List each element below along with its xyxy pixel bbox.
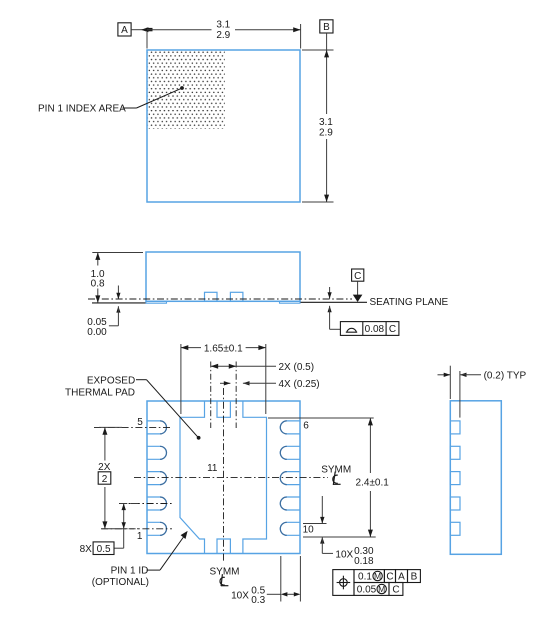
datum B bbox=[320, 20, 333, 50]
svg-text:2.4±0.1: 2.4±0.1 bbox=[356, 478, 390, 489]
svg-text:C: C bbox=[354, 271, 361, 282]
svg-text:C: C bbox=[389, 324, 396, 335]
svg-text:11: 11 bbox=[207, 463, 218, 474]
svg-text:SEATING PLANE: SEATING PLANE bbox=[370, 297, 449, 308]
tab centerline right bbox=[235, 362, 237, 429]
left pins 5-1 (terminals) bbox=[147, 421, 167, 535]
svg-text:EXPOSED: EXPOSED bbox=[87, 376, 135, 387]
dim 1.0/0.8 bbox=[91, 253, 143, 303]
seating plane line left bbox=[92, 302, 146, 304]
svg-text:10X: 10X bbox=[231, 591, 249, 602]
flatness callout leader bbox=[328, 287, 341, 329]
svg-text:SYMM: SYMM bbox=[210, 567, 240, 578]
svg-text:C: C bbox=[392, 585, 399, 596]
side view lead right bbox=[280, 301, 301, 303]
dim 3.1/2.9 vertical bbox=[302, 50, 334, 202]
side view centerline bbox=[88, 298, 352, 300]
side view lead left bbox=[146, 301, 167, 303]
dim 1.65±0.1 pad width bbox=[181, 343, 266, 414]
pin2 centerline bbox=[119, 503, 172, 505]
dim 0.05/0.00 bbox=[87, 286, 120, 338]
svg-text:0.08: 0.08 bbox=[365, 324, 385, 335]
datum C seating plane bbox=[352, 269, 449, 308]
svg-text:(OPTIONAL): (OPTIONAL) bbox=[92, 577, 149, 588]
svg-text:SYMM: SYMM bbox=[321, 464, 351, 475]
pin 1 index area stipple bbox=[148, 51, 225, 129]
svg-text:0.3: 0.3 bbox=[251, 595, 265, 606]
SYMM label bottom bbox=[210, 567, 240, 587]
right side view terminal bumps bbox=[450, 421, 460, 535]
svg-text:0.00: 0.00 bbox=[87, 327, 107, 338]
svg-text:0.1: 0.1 bbox=[358, 572, 372, 583]
pin1 centerline bbox=[101, 528, 172, 530]
svg-text:10X: 10X bbox=[335, 550, 353, 561]
svg-text:2.9: 2.9 bbox=[319, 128, 333, 139]
right pins 6-10 (terminals) bbox=[280, 421, 300, 535]
dim 2X (0.5) tab spacing bbox=[211, 362, 314, 373]
svg-text:1.65±0.1: 1.65±0.1 bbox=[204, 343, 243, 354]
pin5 centerline bbox=[94, 426, 172, 428]
dim 4X (0.25) tab width bbox=[220, 379, 320, 390]
svg-text:B: B bbox=[411, 572, 418, 583]
dim 2X [2] pin span bbox=[98, 427, 138, 528]
svg-text:B: B bbox=[323, 22, 330, 33]
svg-text:THERMAL PAD: THERMAL PAD bbox=[65, 388, 135, 399]
svg-text:A: A bbox=[121, 25, 128, 36]
pad label 11 bbox=[207, 463, 218, 474]
PIN 1 INDEX AREA label and leader bbox=[38, 86, 184, 114]
dim 10X 0.30/0.18 pin width bbox=[303, 496, 374, 567]
bottom view package body outline bbox=[147, 401, 300, 554]
svg-text:M: M bbox=[374, 571, 381, 581]
EXPOSED THERMAL PAD label and leader bbox=[65, 376, 201, 440]
top view package body outline bbox=[147, 50, 300, 202]
SYMM label right bbox=[321, 464, 351, 485]
svg-text:10: 10 bbox=[303, 524, 315, 535]
svg-text:0.18: 0.18 bbox=[354, 556, 374, 567]
dim (0.2) TYP bbox=[438, 366, 527, 418]
position tolerance frame 0.1 M C A B / 0.05 M C bbox=[333, 570, 421, 596]
svg-text:2: 2 bbox=[102, 474, 108, 485]
horizontal symmetry centerline bbox=[134, 477, 328, 479]
svg-text:2X (0.5): 2X (0.5) bbox=[279, 362, 315, 373]
svg-text:1: 1 bbox=[137, 531, 143, 542]
vertical symmetry centerline bbox=[223, 388, 225, 563]
svg-text:A: A bbox=[398, 572, 405, 583]
dim 2.4±0.1 pad height bbox=[268, 418, 389, 537]
svg-text:C: C bbox=[386, 572, 393, 583]
dim 10X 0.5/0.3 pin length bbox=[231, 556, 300, 606]
svg-text:2.9: 2.9 bbox=[216, 30, 230, 41]
tab centerline left bbox=[210, 362, 212, 429]
dim 8X 0.5 pin pitch bbox=[80, 504, 140, 555]
svg-text:0.5: 0.5 bbox=[97, 544, 111, 555]
svg-text:4X (0.25): 4X (0.25) bbox=[279, 379, 320, 390]
svg-text:6: 6 bbox=[303, 420, 309, 431]
pin label 5 bbox=[137, 417, 143, 428]
exposed thermal pad outline with pin1 chamfer bbox=[180, 401, 267, 554]
pin label 10 bbox=[303, 524, 315, 535]
svg-text:5: 5 bbox=[137, 417, 143, 428]
svg-text:8X: 8X bbox=[80, 544, 93, 555]
svg-text:0.05: 0.05 bbox=[357, 585, 377, 596]
side view pad tab left bbox=[205, 292, 218, 301]
side view body outline bbox=[146, 252, 300, 301]
side view pad tab right bbox=[230, 292, 243, 301]
right side view body outline bbox=[450, 401, 501, 555]
datum A bbox=[118, 23, 153, 36]
pin label 6 bbox=[303, 420, 309, 431]
svg-text:(0.2) TYP: (0.2) TYP bbox=[484, 371, 527, 382]
dim 3.1/2.9 horizontal bbox=[147, 20, 301, 49]
svg-text:PIN 1 INDEX AREA: PIN 1 INDEX AREA bbox=[38, 104, 126, 115]
svg-text:3.1: 3.1 bbox=[216, 20, 230, 31]
flatness feature control frame 0.08 C bbox=[340, 322, 399, 336]
pin label 1 bbox=[137, 531, 143, 542]
svg-text:M: M bbox=[378, 584, 385, 594]
svg-text:PIN 1 ID: PIN 1 ID bbox=[111, 566, 149, 577]
PIN 1 ID label and arrow bbox=[92, 531, 188, 588]
svg-text:0.8: 0.8 bbox=[91, 278, 105, 289]
seating plane line right bbox=[301, 301, 368, 303]
